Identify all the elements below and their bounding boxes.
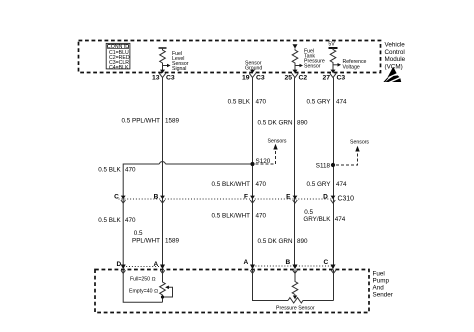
label Fuel Level Sensor Signal bbox=[172, 51, 189, 72]
svg-text:0.5 DK GRN: 0.5 DK GRN bbox=[258, 120, 293, 127]
svg-text:470: 470 bbox=[256, 99, 267, 106]
splice S118 bbox=[316, 163, 335, 170]
terminal arrow into fuel pump (A left) bbox=[160, 265, 165, 270]
splice S120 bbox=[250, 158, 270, 166]
svg-text:D: D bbox=[323, 193, 328, 200]
label 0.5 GRY 474 bbox=[306, 99, 347, 106]
label 0.5 BLK 470 bbox=[228, 99, 267, 106]
svg-text:Vehicle: Vehicle bbox=[385, 42, 406, 49]
svg-text:C3: C3 bbox=[337, 74, 346, 81]
pressure sensor horizontal resistor bbox=[288, 298, 334, 303]
svg-text:470: 470 bbox=[256, 213, 267, 220]
dotted connector line left (D-A) bbox=[123, 266, 162, 268]
wire BLK 470 ground v2 bbox=[252, 78, 254, 265]
fuel level sender: left wire from D bbox=[123, 270, 162, 303]
C310 terminal E bbox=[286, 193, 297, 203]
pin 19 C3 connector bbox=[242, 70, 265, 82]
svg-text:Sensors: Sensors bbox=[350, 140, 369, 146]
svg-text:Voltage: Voltage bbox=[343, 64, 360, 70]
pressure sensor: wire C down bbox=[333, 270, 335, 301]
C310 terminal C bbox=[114, 193, 125, 203]
terminal cups inside fuel pump box bbox=[121, 270, 126, 273]
terminal arrow into fuel pump (B) bbox=[293, 265, 298, 270]
svg-text:0.5 BLK: 0.5 BLK bbox=[228, 99, 251, 106]
svg-text:And: And bbox=[373, 285, 385, 292]
svg-text:1589: 1589 bbox=[165, 238, 180, 245]
svg-text:Full=250 Ω: Full=250 Ω bbox=[130, 277, 155, 283]
svg-text:Signal: Signal bbox=[172, 66, 186, 72]
VCM module dashed box bbox=[79, 41, 381, 73]
label 0.5 DK GRN 890 bbox=[258, 120, 309, 127]
svg-text:890: 890 bbox=[297, 120, 308, 127]
dashed branch to Sensors (S120) bbox=[256, 139, 287, 165]
svg-text:0.5 BLK/WHT: 0.5 BLK/WHT bbox=[212, 181, 251, 188]
label 0.5 BLK/WHT 470 (below C310) bbox=[212, 213, 267, 220]
svg-text:0.5 DK GRN: 0.5 DK GRN bbox=[258, 238, 293, 245]
svg-text:D: D bbox=[116, 261, 121, 268]
svg-text:Module: Module bbox=[385, 56, 406, 63]
svg-text:13: 13 bbox=[152, 74, 160, 81]
svg-text:Fuel: Fuel bbox=[373, 271, 385, 278]
resistor Reference Voltage 5V (inside VCM) bbox=[328, 42, 341, 73]
wire GRY 474 v4 bbox=[333, 78, 335, 265]
svg-text:CONN ID: CONN ID bbox=[107, 44, 129, 50]
label Reference Voltage bbox=[343, 59, 367, 70]
label 0.5 GRY/BLK 474 (below C310) bbox=[303, 209, 345, 223]
resistor Fuel Level Sensor Signal (inside VCM) bbox=[159, 48, 171, 73]
svg-text:27: 27 bbox=[322, 74, 330, 81]
pressure sensor: wire A down and bottom rail bbox=[253, 270, 289, 301]
label 0.5 BLK 470 (left leg upper) bbox=[98, 167, 136, 174]
svg-text:Empty=40 Ω: Empty=40 Ω bbox=[129, 289, 158, 295]
svg-text:Control: Control bbox=[385, 49, 405, 56]
label 0.5 PPL/WHT 1589 bbox=[122, 118, 180, 125]
svg-text:PPL/WHT: PPL/WHT bbox=[132, 238, 160, 245]
label 0.5 GRY 474 (above C310) bbox=[306, 181, 347, 188]
svg-text:474: 474 bbox=[336, 181, 347, 188]
pressure sensor: wire B with series resistor bbox=[292, 270, 298, 295]
label 0.5 DK GRN 890 (below C310) bbox=[258, 238, 309, 245]
label 0.5 PPL/WHT 1589 (below C310) bbox=[132, 230, 180, 244]
svg-text:0.5 GRY: 0.5 GRY bbox=[306, 99, 331, 106]
terminal arrow into fuel pump (C) bbox=[331, 265, 336, 270]
C310 terminal F bbox=[244, 193, 255, 203]
svg-text:890: 890 bbox=[297, 238, 308, 245]
ESD warning triangle bbox=[383, 67, 401, 83]
svg-text:Sender: Sender bbox=[373, 292, 393, 299]
C310 terminal D bbox=[323, 193, 335, 203]
svg-text:C2: C2 bbox=[299, 74, 308, 81]
wire ground branch from S120 to left leg bbox=[166, 163, 253, 165]
wire hop over v1 bbox=[159, 162, 165, 164]
fuel pump and sender dashed box bbox=[95, 270, 369, 313]
pin 25 C2 connector bbox=[284, 70, 307, 82]
wire left leg down bbox=[123, 164, 159, 265]
svg-text:25: 25 bbox=[284, 74, 292, 81]
svg-text:C: C bbox=[323, 259, 328, 266]
svg-text:0.5: 0.5 bbox=[304, 209, 313, 216]
fuel level sender variable resistor bbox=[160, 270, 173, 303]
dashed branch to Sensors (S118) bbox=[336, 140, 369, 166]
svg-text:B: B bbox=[154, 193, 159, 200]
svg-text:1589: 1589 bbox=[165, 118, 180, 125]
svg-text:F: F bbox=[244, 193, 248, 200]
svg-text:E: E bbox=[286, 193, 291, 200]
svg-text:470: 470 bbox=[256, 181, 267, 188]
svg-text:GRY/BLK: GRY/BLK bbox=[303, 216, 331, 223]
label Vehicle Control Module (VCM) bbox=[385, 42, 406, 71]
svg-text:C: C bbox=[114, 193, 119, 200]
svg-text:0.5 GRY: 0.5 GRY bbox=[306, 181, 331, 188]
resistor Fuel Tank Pressure Sensor (inside VCM) bbox=[292, 44, 303, 72]
svg-text:Sensor: Sensor bbox=[304, 64, 321, 70]
svg-text:C4=BLK: C4=BLK bbox=[109, 65, 129, 71]
pin 13 C3 connector bbox=[152, 70, 175, 82]
svg-text:Pump: Pump bbox=[373, 278, 390, 285]
svg-text:0.5 BLK: 0.5 BLK bbox=[98, 217, 121, 224]
connector C310 dotted line bbox=[119, 198, 335, 200]
svg-text:474: 474 bbox=[336, 99, 347, 106]
label 0.5 BLK/WHT 470 (above C310) bbox=[212, 181, 267, 188]
label Fuel Tank Pressure Sensor bbox=[304, 49, 325, 70]
terminal arrow into fuel pump (D) bbox=[121, 265, 126, 270]
svg-text:19: 19 bbox=[242, 74, 250, 81]
svg-text:A: A bbox=[243, 259, 248, 266]
svg-text:C3: C3 bbox=[256, 74, 265, 81]
wire PPL/WHT 1589 (v1) bbox=[162, 78, 164, 265]
sender wiper arrow bbox=[163, 287, 173, 297]
svg-text:Sensors: Sensors bbox=[268, 139, 287, 145]
svg-text:0.5: 0.5 bbox=[134, 230, 143, 237]
C310 terminal B bbox=[154, 193, 165, 203]
label Fuel Pump And Sender bbox=[373, 271, 393, 299]
dotted connector line right (A-B-C) bbox=[253, 265, 334, 267]
wire DK GRN 890 v3 bbox=[294, 78, 296, 265]
svg-text:474: 474 bbox=[335, 216, 346, 223]
svg-text:S118: S118 bbox=[316, 163, 331, 170]
label Sensor Ground bbox=[245, 61, 262, 72]
svg-text:Pressure Sensor: Pressure Sensor bbox=[276, 306, 315, 312]
svg-text:5V: 5V bbox=[328, 42, 335, 48]
pin 27 C3 connector bbox=[322, 70, 345, 82]
svg-text:470: 470 bbox=[125, 217, 136, 224]
terminal arrow into fuel pump (A right) bbox=[250, 265, 255, 270]
label 0.5 BLK 470 (left leg lower) bbox=[98, 217, 136, 224]
svg-text:B: B bbox=[285, 259, 290, 266]
svg-text:470: 470 bbox=[125, 167, 136, 174]
svg-text:0.5 BLK/WHT: 0.5 BLK/WHT bbox=[212, 213, 251, 220]
pressure sensor wiper dashes and arrow bbox=[294, 295, 296, 297]
svg-text:0.5 BLK: 0.5 BLK bbox=[98, 167, 121, 174]
CONN ID table bbox=[106, 43, 130, 71]
svg-text:C3: C3 bbox=[166, 74, 175, 81]
svg-text:C310: C310 bbox=[338, 196, 355, 203]
svg-text:0.5 PPL/WHT: 0.5 PPL/WHT bbox=[122, 118, 161, 125]
